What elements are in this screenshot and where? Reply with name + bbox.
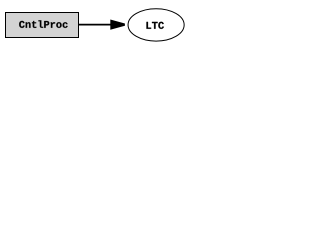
node LTC (128, 9, 184, 41)
label LTC (146, 22, 163, 29)
label CntlProc (19, 20, 67, 28)
node CntlProc (6, 13, 79, 38)
arrowhead (110, 20, 125, 30)
wire (79, 24, 112, 26)
